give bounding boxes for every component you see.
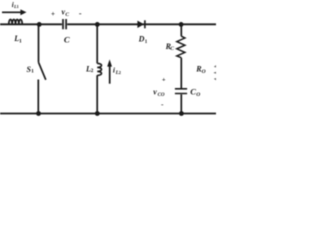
svg-text:O: O	[202, 69, 206, 75]
svg-text:C: C	[170, 46, 174, 52]
svg-text:1: 1	[31, 69, 34, 75]
svg-text:2: 2	[91, 68, 94, 74]
svg-text:C: C	[64, 34, 70, 44]
svg-text:1: 1	[19, 38, 22, 44]
svg-text:O: O	[196, 92, 200, 98]
svg-text:D: D	[138, 35, 145, 44]
svg-text:+: +	[162, 77, 166, 84]
svg-text:-: -	[79, 9, 82, 18]
svg-text:C: C	[65, 12, 69, 18]
svg-text:v: v	[153, 87, 157, 96]
svg-text:CO: CO	[158, 93, 165, 98]
svg-text:1: 1	[17, 4, 19, 9]
svg-text:+: +	[51, 10, 55, 18]
